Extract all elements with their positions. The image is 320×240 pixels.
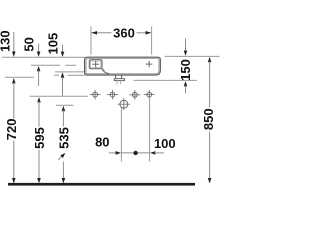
wire rim-extension-right <box>165 55 220 57</box>
dim 360 arrow-left <box>92 31 97 35</box>
dim 595 line-lower <box>38 150 40 183</box>
dim 535 break-arrow <box>58 154 64 160</box>
mounting hole 3 <box>132 92 137 97</box>
basin step <box>102 69 110 74</box>
wire ext-100-vertical <box>149 100 151 162</box>
wire line-535-ref <box>56 104 73 106</box>
basin tap deck inner <box>91 61 101 68</box>
dim 100 arrow-left <box>150 151 155 155</box>
dim 150 arrow-down <box>184 51 188 56</box>
dim 130 top-leader <box>13 32 15 52</box>
dim 535 arrow-floor <box>62 178 66 183</box>
dim 100 leader <box>154 152 163 154</box>
dim 105 arrow-up <box>61 72 65 77</box>
wire line-150-bottom-ref <box>134 79 197 81</box>
mounting hole 2 <box>110 92 115 97</box>
dim 105 tail <box>62 77 64 96</box>
svg-text:595: 595 <box>32 127 47 149</box>
svg-text:105: 105 <box>46 33 61 55</box>
wire ext-360-right <box>151 27 153 55</box>
drain stub <box>115 75 117 79</box>
dim 105 top-leader <box>62 45 64 53</box>
dim 50 top-leader <box>38 44 40 52</box>
dim 50 arrow-up <box>37 66 41 71</box>
tap hole cross right <box>146 63 153 65</box>
dim 595 arrow-up <box>37 97 41 102</box>
mounting hole 4 <box>147 92 152 97</box>
dim 850 line-lower <box>209 132 211 183</box>
dim 720 line-lower <box>13 141 15 183</box>
wire ext-360-left <box>90 27 92 55</box>
basin tap deck <box>89 60 102 69</box>
dim 360 line-right <box>137 32 152 34</box>
wire line-105-ref <box>55 71 85 73</box>
floor line <box>8 183 195 186</box>
svg-text:720: 720 <box>4 119 19 141</box>
dim 720 arrow-floor <box>12 178 16 183</box>
dim 80 leader <box>109 152 117 154</box>
dim 150 top-leader <box>185 39 187 51</box>
wire line-595-ref <box>30 95 88 97</box>
svg-text:360: 360 <box>113 26 135 41</box>
dim 850 arrow-floor <box>208 178 212 183</box>
svg-text:850: 850 <box>201 108 216 130</box>
wire rim-extension-left <box>2 56 85 58</box>
wire basin-bottom-extension <box>54 74 59 76</box>
basin outer outline <box>85 57 161 75</box>
svg-text:100: 100 <box>154 136 176 151</box>
dim 535 line-upper <box>62 110 64 126</box>
svg-text:150: 150 <box>178 59 193 81</box>
svg-text:80: 80 <box>95 135 109 150</box>
dim 80 arrow-right <box>116 151 121 155</box>
dim 720 line-upper <box>13 83 15 119</box>
dim 50 arrow-down <box>37 52 41 57</box>
dim 595 line-upper <box>38 102 40 127</box>
tap hole cross left <box>92 63 99 65</box>
wire line-50-ref <box>31 64 60 66</box>
drain hole large <box>120 100 128 108</box>
wire line-130-ref <box>5 76 34 78</box>
dim 80-100 line <box>121 152 149 154</box>
svg-text:535: 535 <box>57 127 72 149</box>
dim 50 tail <box>38 71 40 87</box>
dim 535 line-lower <box>62 162 64 183</box>
mounting hole 1 <box>93 92 98 97</box>
dim 105 arrow-down <box>61 52 65 57</box>
dim 130 arrow-up <box>12 78 16 83</box>
dim 360 line-left <box>92 32 112 34</box>
dim 595 arrow-floor <box>37 178 41 183</box>
drain pipe <box>116 81 118 85</box>
dim 150 tail <box>185 86 187 94</box>
svg-text:130: 130 <box>0 30 13 52</box>
dim 360 arrow-right <box>146 31 151 35</box>
drain flange <box>114 79 124 81</box>
node drain-center-dot <box>133 151 137 155</box>
dim 130 arrow-down <box>12 52 16 57</box>
dim 535 arrow-up <box>62 106 66 111</box>
svg-text:50: 50 <box>22 37 37 51</box>
dim 150 arrow-up <box>184 81 188 86</box>
dim 850 arrow-up <box>208 57 212 62</box>
dim 850 line-upper <box>209 62 211 108</box>
wire ext-80-vertical <box>120 108 122 162</box>
basin inner line <box>86 59 159 74</box>
